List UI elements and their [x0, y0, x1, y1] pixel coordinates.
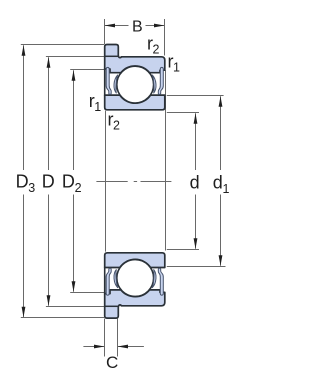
d arrows	[194, 113, 198, 124]
d1 horizontal extension top	[167, 95, 224, 97]
D3 arrows	[22, 45, 26, 56]
B dimension line left part	[105, 25, 129, 27]
d horizontal extension top	[167, 112, 199, 114]
D2 arrows	[72, 70, 76, 81]
svg-text:D: D	[42, 171, 55, 191]
top half-section	[105, 45, 165, 110]
D3 horizontal extension top	[21, 44, 104, 46]
d1 dimension line lower	[220, 195, 222, 266]
left face extension between sections	[105, 111, 107, 252]
D dimension line upper	[48, 57, 50, 170]
D3 dimension line lower	[23, 195, 25, 318]
D2 dimension line upper	[73, 70, 75, 170]
C arrows	[94, 345, 105, 349]
bottom half-section (mirrored)	[105, 253, 165, 318]
D2 dimension line lower	[73, 195, 75, 292]
svg-text:B: B	[132, 18, 143, 35]
C dimension line left part	[83, 346, 104, 348]
C dimension line right part	[118, 346, 144, 348]
B extension line right	[164, 19, 166, 56]
right face extension between sections	[165, 70, 167, 250]
d dimension line lower	[195, 195, 197, 249]
d1 horizontal extension bottom	[167, 266, 226, 268]
svg-text:d: d	[190, 173, 200, 193]
B extension line left	[104, 19, 106, 44]
D2 horizontal extension top	[70, 69, 104, 71]
B arrows	[105, 24, 116, 28]
d dimension line upper	[195, 113, 197, 170]
C extension left	[104, 319, 106, 357]
d1 dimension line upper	[220, 96, 222, 170]
d horizontal extension bottom	[167, 249, 199, 251]
C extension right	[117, 319, 119, 357]
B dimension line right part	[146, 25, 165, 27]
D2 horizontal extension bottom	[70, 292, 104, 294]
d1 arrows	[219, 96, 223, 107]
svg-text:C: C	[106, 353, 118, 372]
centerline (dash-dot)	[96, 181, 171, 183]
D dimension line lower	[48, 195, 50, 306]
D3 dimension line upper	[23, 45, 25, 170]
D arrows	[47, 57, 51, 67]
D3 horizontal extension bottom	[21, 317, 104, 319]
D horizontal extension bottom	[46, 306, 104, 308]
D horizontal extension top	[46, 56, 104, 58]
